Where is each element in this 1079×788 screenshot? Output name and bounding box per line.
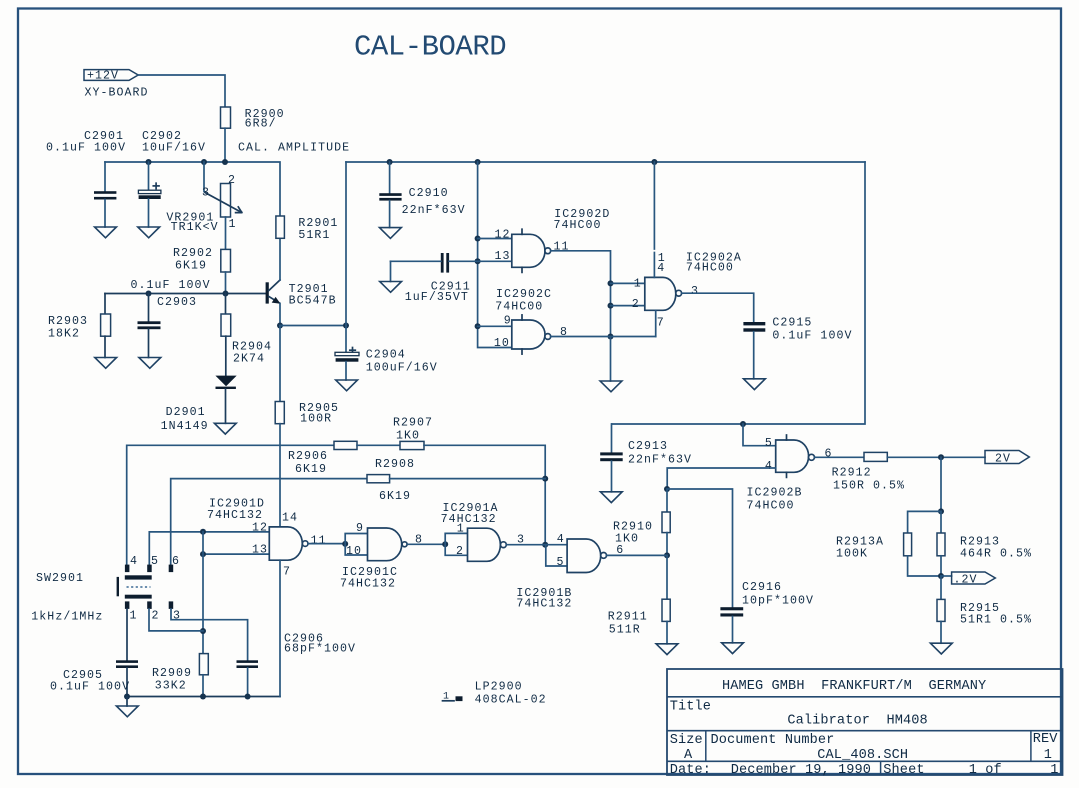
svg-text:1N4149: 1N4149 bbox=[161, 420, 209, 433]
resistor R2908 bbox=[367, 475, 390, 483]
wire rail 1 left segment bbox=[127, 445, 334, 564]
junction at (743,424) bbox=[740, 421, 746, 427]
wire switch pin1 to C2905 bbox=[126, 609, 128, 660]
svg-text:R2902: R2902 bbox=[173, 247, 213, 260]
svg-text:R2907: R2907 bbox=[393, 417, 433, 430]
svg-text:LP2900: LP2900 bbox=[475, 681, 523, 694]
svg-text:511R: 511R bbox=[609, 624, 641, 637]
junction at (204,162) bbox=[201, 159, 207, 165]
wire IC2902D output to IC2902A inputs bbox=[551, 251, 611, 337]
svg-text:R2913A: R2913A bbox=[836, 536, 884, 549]
junction at (389.6,162) bbox=[387, 159, 393, 165]
svg-text:Date:: Date: bbox=[670, 763, 711, 778]
capacitor C2915 bbox=[743, 322, 765, 325]
wire IC2901C tied inputs bbox=[345, 534, 367, 556]
svg-text:CAL_408.SCH: CAL_408.SCH bbox=[817, 748, 908, 763]
ground C2901 bbox=[95, 227, 117, 238]
svg-text:0.1uF 100V: 0.1uF 100V bbox=[772, 330, 852, 343]
svg-text:13: 13 bbox=[252, 543, 268, 556]
svg-text:1: 1 bbox=[229, 218, 237, 231]
diode D2901 bbox=[215, 376, 236, 387]
nand gate IC2901C bbox=[368, 528, 402, 561]
wire switch pin2 riser bbox=[202, 532, 204, 654]
junction at (477.6,162) bbox=[475, 159, 481, 165]
resistor R2905 bbox=[275, 402, 284, 424]
svg-text:R2911: R2911 bbox=[608, 610, 648, 623]
junction at (225.5,293.5) bbox=[223, 291, 229, 297]
resistor R2904 bbox=[225, 294, 227, 315]
ground IC2902A input net bbox=[600, 381, 622, 392]
svg-text:REV: REV bbox=[1033, 732, 1059, 747]
svg-text:R2912: R2912 bbox=[832, 467, 872, 480]
svg-text:A: A bbox=[684, 748, 693, 763]
wire top bus bbox=[346, 161, 865, 163]
junction at (654.4,162) bbox=[651, 159, 657, 165]
junction at (667,489) bbox=[664, 486, 670, 492]
title block outline bbox=[667, 669, 1063, 775]
svg-text:100uF/16V: 100uF/16V bbox=[366, 362, 438, 375]
resistor R2915 bbox=[940, 576, 942, 599]
svg-text:IC2902C: IC2902C bbox=[496, 288, 552, 301]
svg-text:9: 9 bbox=[504, 315, 512, 328]
svg-text:9: 9 bbox=[356, 522, 364, 535]
svg-text:11: 11 bbox=[311, 535, 327, 548]
capacitor C2911 bbox=[441, 253, 444, 273]
junction at (127,696.5) bbox=[124, 694, 130, 700]
wire IC2901A tied inputs bbox=[445, 533, 467, 555]
svg-text:R2906: R2906 bbox=[288, 450, 328, 463]
junction at (610.5,305.6) bbox=[608, 303, 614, 309]
junction at (610.5,283.4) bbox=[608, 280, 614, 286]
svg-text:+12V: +12V bbox=[87, 70, 119, 83]
title block row line 3 bbox=[667, 760, 1063, 762]
nand gate IC2901A bbox=[468, 528, 501, 561]
junction at (610.5,336.5) bbox=[608, 334, 614, 340]
svg-text:HAMEG GMBH FRANKFURT/M GERMA: HAMEG GMBH FRANKFURT/M GERMANY bbox=[722, 679, 986, 694]
ground R2903 bbox=[95, 358, 117, 369]
title block row line 2 bbox=[667, 730, 1063, 732]
svg-text:Sheet: Sheet bbox=[883, 763, 924, 778]
wire IC2901B output bbox=[607, 554, 668, 556]
svg-text:CAL. AMPLITUDE: CAL. AMPLITUDE bbox=[238, 142, 350, 155]
divider size cell bbox=[705, 731, 707, 762]
wire emitter signal riser to top bus bbox=[345, 162, 347, 326]
svg-text:C2910: C2910 bbox=[409, 187, 449, 200]
svg-text:18K2: 18K2 bbox=[48, 327, 80, 340]
svg-text:1: 1 bbox=[457, 523, 465, 536]
ground C2913 bbox=[600, 492, 622, 503]
svg-text:Title: Title bbox=[670, 700, 711, 715]
junction at (346,325.5) bbox=[343, 323, 349, 329]
svg-text:C2915: C2915 bbox=[772, 316, 812, 329]
wire R2902 to base node bbox=[225, 272, 227, 294]
svg-text:1 of: 1 of bbox=[969, 763, 1002, 778]
ground C2911 bbox=[380, 282, 402, 293]
switch pad 5 bbox=[147, 565, 152, 573]
capacitor C2905 bbox=[116, 660, 138, 663]
pin 14 wire with crossover gap bbox=[653, 162, 655, 249]
nand gate IC2901D bbox=[269, 527, 302, 560]
switch pad 4 bbox=[125, 565, 129, 573]
switch pad 3 bbox=[169, 601, 174, 609]
svg-text:2: 2 bbox=[228, 174, 236, 187]
divider rev cell bbox=[1030, 731, 1032, 762]
junction at (203,696.5) bbox=[200, 694, 206, 700]
wire IC2901A output to IC2901B bbox=[506, 544, 545, 546]
wire IC2901D pin12 input bbox=[149, 532, 269, 565]
ground C2902 bbox=[138, 227, 160, 238]
node junction dots on +12V bus bbox=[146, 159, 152, 165]
svg-text:4: 4 bbox=[657, 262, 665, 275]
svg-text:4: 4 bbox=[130, 555, 138, 568]
svg-text:68pF*100V: 68pF*100V bbox=[284, 643, 356, 656]
svg-text:5: 5 bbox=[151, 555, 159, 568]
switch pad 1 bbox=[125, 601, 129, 609]
switch pad 2 bbox=[147, 601, 152, 609]
svg-text:Size: Size bbox=[670, 733, 703, 748]
nand gate IC2902D bbox=[478, 238, 512, 240]
resistor R2913 bbox=[940, 511, 942, 533]
svg-text:6K19: 6K19 bbox=[379, 490, 411, 503]
svg-text:Calibrator HM408: Calibrator HM408 bbox=[787, 714, 927, 729]
svg-text:CAL-BOARD: CAL-BOARD bbox=[354, 31, 506, 64]
resistor R2913A bbox=[908, 511, 941, 533]
svg-text:R2908: R2908 bbox=[375, 458, 415, 471]
ground C2915 bbox=[744, 379, 766, 390]
ground R2915 bbox=[930, 643, 952, 654]
svg-text:74HC132: 74HC132 bbox=[340, 577, 396, 590]
svg-text:6K19: 6K19 bbox=[175, 259, 207, 272]
wire emitter node bbox=[279, 304, 281, 326]
wire IC2901D pin13 input bbox=[203, 553, 269, 555]
svg-text:1kHz/1MHz: 1kHz/1MHz bbox=[31, 611, 103, 624]
svg-text:51R1: 51R1 bbox=[298, 229, 330, 242]
svg-text:C2913: C2913 bbox=[628, 440, 668, 453]
svg-text:SW2901: SW2901 bbox=[36, 572, 84, 585]
capacitor C2903 bbox=[148, 294, 150, 322]
svg-text:R2913: R2913 bbox=[960, 536, 1000, 549]
svg-text:C2903: C2903 bbox=[157, 296, 197, 309]
svg-text:6: 6 bbox=[172, 555, 180, 568]
wire IC2902A output to C2915 bbox=[682, 293, 754, 322]
wire pin4 net bbox=[667, 468, 776, 489]
svg-text:74HC00: 74HC00 bbox=[554, 219, 602, 232]
svg-text:464R 0.5%: 464R 0.5% bbox=[960, 548, 1032, 561]
svg-text:2K74: 2K74 bbox=[233, 353, 265, 366]
resistor R2911 bbox=[666, 555, 668, 599]
svg-text:0.1uF 100V: 0.1uF 100V bbox=[50, 680, 130, 693]
wire feedback from top bus to gate rail bbox=[612, 162, 865, 424]
svg-text:1K0: 1K0 bbox=[396, 430, 420, 443]
ground C2904 bbox=[336, 380, 358, 391]
wire +12V bus bbox=[105, 162, 280, 216]
svg-text:33K2: 33K2 bbox=[155, 680, 187, 693]
nand gate IC2902A bbox=[611, 282, 645, 284]
ground bottom rail bbox=[116, 706, 138, 717]
wire IC2901D pin7 drop bbox=[279, 560, 281, 696]
resistor R2906 bbox=[334, 441, 357, 449]
resistor R2907 bbox=[400, 441, 424, 449]
junction at (148.5,293.5) bbox=[146, 291, 152, 297]
switch pad 6 bbox=[169, 565, 174, 573]
svg-text:C2916: C2916 bbox=[742, 581, 782, 594]
wire rail 1 mid segment bbox=[357, 444, 400, 446]
svg-text:0.1uF 100V: 0.1uF 100V bbox=[131, 279, 211, 292]
svg-text:10: 10 bbox=[494, 337, 510, 350]
svg-text:R2909: R2909 bbox=[152, 667, 192, 680]
svg-text:BC547B: BC547B bbox=[289, 294, 337, 307]
svg-text:R2903: R2903 bbox=[48, 315, 88, 328]
wire VR2901 to R2902 bbox=[225, 217, 227, 249]
junction at (203,631) bbox=[200, 628, 206, 634]
svg-text:22nF*63V: 22nF*63V bbox=[628, 453, 692, 466]
svg-text:6K19: 6K19 bbox=[295, 463, 327, 476]
capacitor C2913 bbox=[611, 424, 613, 452]
svg-text:100R: 100R bbox=[300, 413, 332, 426]
wire switch pin3 jog to C2906 bbox=[171, 609, 248, 660]
svg-text:IC2902B: IC2902B bbox=[747, 487, 803, 500]
transistor T2901 bbox=[266, 282, 269, 303]
svg-text:D2901: D2901 bbox=[166, 406, 206, 419]
svg-text:22nF*63V: 22nF*63V bbox=[402, 204, 466, 217]
junction at (445.2,544.3) bbox=[442, 541, 448, 547]
svg-text:2: 2 bbox=[456, 545, 464, 558]
svg-text:14: 14 bbox=[282, 512, 298, 525]
junction at (941,457.3) bbox=[938, 454, 944, 460]
junction at (203,554.1) bbox=[200, 551, 206, 557]
svg-text:XY-BOARD: XY-BOARD bbox=[85, 87, 149, 100]
wire bottom ground rail bbox=[127, 696, 280, 698]
junction at (941,576) bbox=[938, 573, 944, 579]
junction at (477.6,261.3) bbox=[475, 258, 481, 264]
junction at (345.2,543.9) bbox=[342, 541, 348, 547]
svg-text:6R8/: 6R8/ bbox=[245, 117, 277, 130]
wire rail 1 right segment to vertical bbox=[424, 445, 545, 544]
nand gate IC2902B bbox=[743, 424, 776, 446]
junction at (203,531.7) bbox=[200, 529, 206, 535]
resistor R2912 bbox=[864, 452, 887, 461]
svg-text:10pF*100V: 10pF*100V bbox=[742, 595, 814, 608]
wire rail 2 right segment bbox=[390, 478, 546, 480]
svg-text:51R1 0.5%: 51R1 0.5% bbox=[960, 614, 1032, 627]
svg-text:10uF/16V: 10uF/16V bbox=[142, 142, 206, 155]
capacitor C2904 polarized bbox=[345, 326, 347, 353]
connector flag +12V bbox=[84, 70, 138, 81]
wire R2905 to IC2901D pin14 bbox=[279, 424, 281, 527]
svg-text:408CAL-02: 408CAL-02 bbox=[475, 693, 547, 706]
wire R2912 to 2V flag bbox=[887, 456, 985, 458]
junction at (477.6,326.3) bbox=[475, 323, 481, 329]
ground C2916 bbox=[722, 643, 744, 654]
potentiometer VR2901 bbox=[203, 162, 205, 192]
svg-text:74HC00: 74HC00 bbox=[686, 261, 734, 274]
svg-text:7: 7 bbox=[657, 316, 665, 329]
svg-text:6: 6 bbox=[825, 448, 833, 461]
svg-text:2V: 2V bbox=[995, 452, 1011, 465]
capacitor C2902 polarized bbox=[148, 162, 150, 190]
svg-text:1: 1 bbox=[1044, 748, 1052, 763]
svg-text:7: 7 bbox=[283, 566, 291, 579]
capacitor C2910 bbox=[389, 162, 391, 193]
wire base rail bbox=[105, 293, 266, 295]
svg-text:1uF/35VT: 1uF/35VT bbox=[405, 291, 469, 304]
svg-text:4: 4 bbox=[765, 460, 773, 473]
resistor R2902 bbox=[221, 249, 231, 272]
wire R2900 to +12V bus bbox=[224, 128, 226, 162]
svg-text:3: 3 bbox=[202, 186, 210, 199]
svg-text:12: 12 bbox=[495, 229, 511, 242]
ground C2903 bbox=[139, 358, 161, 369]
svg-text:74HC132: 74HC132 bbox=[516, 597, 572, 610]
svg-text:.2V: .2V bbox=[954, 573, 978, 586]
switch SW2901 body bbox=[117, 577, 119, 596]
junction at (941,511.4) bbox=[938, 508, 944, 514]
svg-text:13: 13 bbox=[495, 250, 511, 263]
svg-text:5: 5 bbox=[765, 437, 773, 450]
junction at (280,325.5) bbox=[277, 323, 283, 329]
ground R2911 bbox=[656, 644, 678, 655]
svg-text:5: 5 bbox=[557, 556, 565, 569]
wire IC2902C output bbox=[551, 336, 656, 338]
resistor R2910 bbox=[666, 489, 668, 512]
nand gate IC2901B bbox=[567, 539, 601, 573]
wire divider node bbox=[940, 457, 942, 511]
svg-text:10: 10 bbox=[346, 545, 362, 558]
svg-text:1: 1 bbox=[130, 609, 138, 622]
capacitor C2916 bbox=[720, 607, 743, 610]
svg-text:December 19, 1990: December 19, 1990 bbox=[731, 763, 871, 778]
resistor R2901 bbox=[279, 238, 281, 280]
junction at (247.6,696.5) bbox=[245, 694, 251, 700]
ground D2901 bbox=[214, 423, 236, 434]
svg-text:TR1K<V: TR1K<V bbox=[171, 221, 219, 234]
nand gate IC2902C bbox=[478, 325, 512, 327]
ground C2910 bbox=[380, 228, 402, 239]
svg-text:4: 4 bbox=[557, 533, 565, 546]
wire switch pin2 jog bbox=[149, 609, 203, 631]
connector flag 2V bbox=[985, 451, 1029, 464]
wire IC2901B tied pin4/pin5 bbox=[546, 545, 567, 566]
title block row line 1 bbox=[667, 696, 1063, 698]
capacitor C2901 bbox=[104, 162, 106, 191]
wire output to R2912 bbox=[815, 456, 865, 458]
junction at (225,162) bbox=[222, 159, 228, 165]
svg-text:12: 12 bbox=[252, 522, 268, 535]
pin 7 wire bbox=[655, 310, 657, 336]
wire rail 2 left segment bbox=[171, 479, 367, 565]
junction at (667,555.4) bbox=[664, 552, 670, 558]
wire emitter to R2905 bbox=[279, 326, 281, 402]
svg-text:74HC00: 74HC00 bbox=[495, 300, 543, 313]
svg-text:2: 2 bbox=[152, 609, 160, 622]
svg-text:2: 2 bbox=[632, 298, 640, 311]
svg-text:1: 1 bbox=[634, 277, 642, 290]
capacitor C2906 bbox=[237, 660, 259, 663]
connector flag .2V bbox=[941, 575, 952, 577]
svg-text:100K: 100K bbox=[836, 548, 868, 561]
svg-text:74HC132: 74HC132 bbox=[207, 509, 263, 522]
wire IC2901C output to IC2901A bbox=[407, 543, 445, 545]
junction at (477.6,238.5) bbox=[475, 236, 481, 242]
wire IC2901D output to IC2901C bbox=[308, 543, 345, 545]
resistor R2903 bbox=[104, 294, 106, 315]
junction at (545.2,478.6) bbox=[542, 476, 548, 482]
junction at (545.2,544.7) bbox=[542, 542, 548, 548]
svg-text:74HC132: 74HC132 bbox=[441, 513, 497, 526]
svg-text:Document Number: Document Number bbox=[711, 733, 835, 748]
resistor R2900 bbox=[221, 107, 231, 128]
svg-text:150R 0.5%: 150R 0.5% bbox=[833, 480, 905, 493]
wire C2905 ground stub bbox=[126, 697, 128, 707]
svg-text:1: 1 bbox=[1050, 763, 1058, 778]
wire +12V flag to R2900 bbox=[138, 75, 225, 107]
svg-text:R2901: R2901 bbox=[298, 217, 338, 230]
svg-text:3: 3 bbox=[691, 285, 699, 298]
wire IC2902D input riser bbox=[478, 162, 512, 348]
svg-text:0.1uF 100V: 0.1uF 100V bbox=[46, 142, 126, 155]
resistor R2909 bbox=[199, 654, 208, 675]
svg-text:R2910: R2910 bbox=[613, 521, 653, 534]
divider sheet cell bbox=[880, 761, 882, 775]
svg-text:74HC00: 74HC00 bbox=[747, 499, 795, 512]
svg-text:C2904: C2904 bbox=[366, 349, 406, 362]
